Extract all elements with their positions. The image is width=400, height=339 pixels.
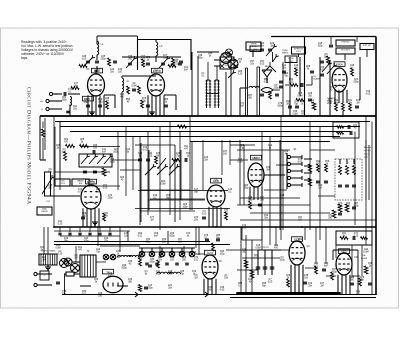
aerial terminal CH <box>46 99 49 102</box>
capacitor C8 <box>132 88 136 90</box>
capacitor C16 <box>260 93 264 95</box>
box below magic eye <box>333 122 359 138</box>
svg-text:0.25: 0.25 <box>84 101 89 103</box>
wire: bottom mid verticals <box>240 227 242 293</box>
svg-text:250p: 250p <box>273 87 279 89</box>
switch lever S1a <box>157 167 159 169</box>
switch bank frame <box>286 153 288 189</box>
wire: bottom frame inner <box>230 297 376 299</box>
svg-text:0.01: 0.01 <box>62 151 67 153</box>
svg-text:V10: V10 <box>354 257 359 259</box>
svg-text:100p: 100p <box>219 253 225 255</box>
dial lamp row <box>139 251 145 257</box>
svg-text:0.25: 0.25 <box>148 155 153 157</box>
capacitor C19 <box>282 70 286 72</box>
variable capacitor C10 (arrow) <box>128 62 132 64</box>
coupling loop symbol <box>261 88 273 93</box>
tube V1 RF amplifier <box>88 74 105 96</box>
capacitor C23 below V4 <box>81 216 85 218</box>
svg-text:DIAL: DIAL <box>253 48 259 51</box>
padder caps cluster left of V5 <box>138 158 142 160</box>
inner box around V10 stage <box>333 249 358 251</box>
svg-text:8uF: 8uF <box>154 235 159 237</box>
coil L4 detector <box>249 86 259 88</box>
wire: boxes to frame <box>252 50 254 57</box>
tuning drive extra X marks <box>226 49 233 56</box>
svg-text:500p: 500p <box>169 235 175 237</box>
input coil L2 <box>70 97 72 106</box>
svg-text:EXT SP: EXT SP <box>363 45 371 47</box>
tone network dashed box <box>335 159 362 200</box>
IFT1 coupling bars <box>207 93 219 95</box>
resistor R10 left of V2 <box>138 86 141 94</box>
svg-text:ECH35: ECH35 <box>153 70 161 73</box>
svg-text:0.01: 0.01 <box>138 235 143 237</box>
svg-text:0.5M: 0.5M <box>255 247 260 249</box>
earth terminal E <box>46 107 49 110</box>
speaker label box 1 <box>246 42 261 50</box>
wire: IF feed vertical <box>197 56 199 116</box>
wire: mains leads <box>37 273 52 275</box>
secondary box below bus <box>167 231 169 245</box>
wire: V9 pins <box>290 265 292 293</box>
label box 3b <box>336 48 355 54</box>
wire: far right drop <box>371 245 373 295</box>
svg-text:AZ31: AZ31 <box>341 250 347 253</box>
capacitor C14 below V2 <box>146 104 150 106</box>
resistor R24 bottom left <box>139 258 142 266</box>
wire: verticals bottom <box>75 246 77 262</box>
tone network internals <box>339 166 342 175</box>
svg-text:500p: 500p <box>121 267 127 269</box>
resistor R28 right of V9 <box>315 266 318 274</box>
resistor grid right of switch <box>317 164 320 172</box>
svg-text:1M: 1M <box>105 100 108 102</box>
capacitor C15 below V2 <box>164 104 168 106</box>
svg-text:taps.: taps. <box>21 56 28 60</box>
resistor R36 bottom left area <box>138 285 141 292</box>
wire: mid tile verticals <box>140 143 142 222</box>
ground below V2 <box>151 110 153 112</box>
svg-text:0.5M: 0.5M <box>363 251 368 253</box>
mains terminal 1 <box>34 272 37 275</box>
wire: V1 anode up <box>95 70 97 74</box>
svg-text:0.5M: 0.5M <box>131 85 136 87</box>
resistor R22 below V5 <box>225 212 228 220</box>
svg-text:0.05: 0.05 <box>268 281 273 283</box>
svg-text:MERS: MERS <box>282 53 289 55</box>
tuning capacitor bowtie 2 <box>228 59 238 69</box>
wire: aerial coil bottom <box>96 55 98 60</box>
resistor R29 <box>331 272 334 280</box>
wire: V1 pins to bus <box>87 95 89 116</box>
wire: V4 pins <box>82 208 84 227</box>
feedback box internals <box>340 237 348 240</box>
wire: switch to transformer <box>72 261 80 263</box>
svg-text:8uF: 8uF <box>102 151 107 153</box>
resistor R35 right of V10 <box>364 266 368 274</box>
svg-text:1M: 1M <box>320 285 323 287</box>
IF transformer IFT1 coil windings <box>206 80 208 108</box>
svg-text:1M: 1M <box>194 277 197 279</box>
ground below V1 <box>91 110 93 112</box>
svg-text:0.5M: 0.5M <box>292 113 297 115</box>
svg-text:C31-33: C31-33 <box>262 247 270 249</box>
wire: osc coil leads <box>155 40 157 43</box>
wire: V6 pins <box>249 187 251 200</box>
switch contacts in box <box>81 157 87 164</box>
wire: gang to tube V4 <box>51 195 80 197</box>
filter choke L7 <box>157 272 171 274</box>
capacitor C28 <box>148 264 152 266</box>
svg-text:SOCKET: SOCKET <box>341 49 351 51</box>
headphone jack Y symbol <box>264 66 276 72</box>
resistor R39 switch grid <box>308 164 311 172</box>
svg-text:100p: 100p <box>333 102 339 104</box>
grid stopper parts near 300,100 <box>296 99 304 102</box>
smoothing choke L5 <box>118 255 131 257</box>
trimmer cluster C1/C2 <box>86 60 90 62</box>
tube V6 detector/AVC <box>248 163 264 187</box>
wire: left-mid links <box>54 127 56 180</box>
svg-text:500p: 500p <box>331 271 337 273</box>
wire: PU box leads <box>214 59 220 61</box>
IFT1 arrow adjuster <box>228 73 233 78</box>
label box: ant coil <box>72 179 89 186</box>
capacitor C29 above V8 <box>205 238 209 240</box>
input filter C4 <box>63 92 65 96</box>
svg-text:1M: 1M <box>270 45 273 47</box>
trimmer C12 with arrow <box>161 62 165 64</box>
wire: V3 pins down <box>334 90 336 103</box>
svg-text:0.05: 0.05 <box>138 257 143 259</box>
svg-text:0.25: 0.25 <box>238 73 243 75</box>
diode marks on bottom line <box>135 292 138 297</box>
svg-text:EF39: EF39 <box>213 180 219 183</box>
switch arrows cluster <box>145 167 153 175</box>
svg-text:DIAL: DIAL <box>42 207 48 210</box>
junction dots on buses <box>96 115 98 117</box>
wire: switch drop to bottom line <box>64 274 66 295</box>
resistor R27 below V9 <box>287 279 290 287</box>
resistor R30 below V10 <box>359 278 362 286</box>
wire: gang to detector area <box>272 52 274 62</box>
fuse F1 <box>66 272 74 276</box>
resistor R25 <box>157 260 160 268</box>
wire: V2 pins down <box>147 95 149 116</box>
resistor R13 below V3 <box>342 103 345 111</box>
wire: V10 pins <box>337 275 339 295</box>
svg-text:~: ~ <box>44 274 46 278</box>
tuning capacitor bowtie 1 <box>221 53 232 64</box>
wire: HT bus (thick horizontal) <box>40 115 376 117</box>
resistor R23 below V6 <box>249 201 252 209</box>
wire: extra interconnects row B <box>122 75 156 77</box>
capacitor C9 top <box>179 60 183 62</box>
wire: dial lamp bus <box>139 247 195 249</box>
svg-text:CH: CH <box>40 101 44 103</box>
svg-text:COIL: COIL <box>60 183 66 185</box>
svg-text:COIL: COIL <box>296 51 302 53</box>
svg-text:250p: 250p <box>243 187 249 189</box>
wire: twin verticals pair B <box>256 67 258 116</box>
mains transformer T2 <box>80 255 96 277</box>
ground below output transformer <box>47 265 49 267</box>
svg-text:100p: 100p <box>317 45 323 47</box>
svg-text:250p: 250p <box>100 58 106 60</box>
wire: bottom region mesh <box>96 261 106 263</box>
svg-text:500p: 500p <box>197 57 203 59</box>
svg-text:250p: 250p <box>353 81 359 83</box>
svg-text:500p: 500p <box>109 161 115 163</box>
wire: AVC line 2 <box>60 126 360 128</box>
resistor R12 below V3 <box>335 103 338 111</box>
svg-text:100p: 100p <box>83 240 89 242</box>
svg-text:0.25: 0.25 <box>156 273 161 275</box>
svg-text:ECH35: ECH35 <box>87 181 95 184</box>
wire: extra vertical 283 <box>282 62 284 116</box>
caps bottom clamp region <box>288 105 292 107</box>
wire: mid tile horizontals <box>135 144 175 146</box>
capacitor C34 below V9 <box>303 281 307 283</box>
resistor R1 top-left <box>108 58 111 66</box>
tube type label boxes <box>92 68 103 73</box>
wire: left border drop to mains <box>39 116 41 160</box>
resistor R6 top <box>172 58 175 66</box>
oscillator shield box <box>138 40 192 71</box>
wire: long vertical risers middle <box>53 116 55 227</box>
bandswitch box <box>79 154 112 167</box>
wire: right section verticals <box>289 57 291 116</box>
svg-text:0.01: 0.01 <box>174 63 179 65</box>
svg-text:F.B.: F.B. <box>362 255 366 257</box>
resistor R31 mid clamp <box>290 84 298 87</box>
capacitor C35 <box>322 268 326 270</box>
label box 4 <box>360 44 374 50</box>
wire: IF right verticals <box>225 72 227 116</box>
capacitor C26 below V6 <box>258 203 262 205</box>
wire: distribution line 4 <box>100 136 340 138</box>
svg-text:1M: 1M <box>42 259 45 261</box>
wire: V8 pins <box>203 279 205 295</box>
box below magic eye internals <box>337 126 344 129</box>
wire: heater bus 3 <box>54 244 230 246</box>
svg-text:0.05: 0.05 <box>103 187 108 189</box>
resistor R40 switch grid <box>308 178 311 186</box>
svg-text:0.5M: 0.5M <box>55 247 60 249</box>
capacitor C21 row d <box>92 150 94 154</box>
wire: V6 to switch bank <box>264 174 285 176</box>
padder capacitor C11 <box>146 62 150 64</box>
speaker label box 2 <box>292 47 306 54</box>
capacitor C17 <box>275 93 279 95</box>
switch bank bars <box>304 158 312 160</box>
wire: right border of schematic <box>375 37 377 296</box>
svg-text:EM34: EM34 <box>336 63 343 66</box>
wire: section divider vertical <box>304 37 306 117</box>
svg-text:0.5M: 0.5M <box>160 183 165 185</box>
resistor R32 right-mid <box>332 210 336 218</box>
capacitor C13 <box>178 62 182 64</box>
svg-text:100p: 100p <box>247 199 253 201</box>
svg-text:0.01: 0.01 <box>314 265 319 267</box>
wire: heater bus <box>54 226 376 228</box>
dial label box (dark) <box>250 46 261 52</box>
tube V9 AF amp <box>289 241 305 265</box>
capacitor C42 right of V10 <box>368 282 372 284</box>
wire: V5 pins <box>208 207 210 227</box>
grid coil T1 between V1 V2 <box>122 78 124 92</box>
caps under dial lamps <box>145 262 149 264</box>
resistor R34 bottom mid <box>250 270 254 278</box>
wire: lamp row link <box>139 251 196 253</box>
capacitor C43 bottom left area <box>144 286 148 288</box>
svg-text:0.25: 0.25 <box>289 81 294 83</box>
svg-text:EM34: EM34 <box>327 103 333 105</box>
wave-change switch bank <box>287 155 290 158</box>
capacitor stack right <box>279 80 283 82</box>
wire: dashed box feeds <box>365 140 367 200</box>
capacitor C20 <box>320 73 324 75</box>
capacitor C30 above V8 <box>216 238 220 240</box>
capacitor C3 <box>113 60 117 62</box>
resistor R4 below V1 <box>106 101 109 109</box>
tube V10 rectifier right <box>336 253 352 275</box>
wire: verticals below IF strip <box>202 140 204 190</box>
pilot lamp LP2 <box>110 254 116 260</box>
svg-text:100p: 100p <box>61 99 67 101</box>
resistor R7 top <box>142 59 145 67</box>
svg-text:0.02: 0.02 <box>254 257 259 259</box>
rectifier tube V7 (horizontal) <box>103 276 123 292</box>
mains terminal 2 <box>34 283 37 286</box>
label box: osc coil <box>55 179 70 186</box>
resistor R19 <box>64 152 67 161</box>
wire: left column drop <box>42 122 44 129</box>
tube V4 oscillator <box>81 185 101 209</box>
wire: AVC line 1 <box>55 121 370 123</box>
svg-text:0.02: 0.02 <box>242 227 247 229</box>
svg-text:100p: 100p <box>279 259 285 261</box>
resistor R9 below V2 <box>141 100 144 108</box>
svg-text:0.01: 0.01 <box>264 81 269 83</box>
svg-text:0.5M: 0.5M <box>297 95 302 97</box>
ground below V4 <box>94 220 96 222</box>
wire: twin verticals pair A <box>245 68 247 116</box>
svg-text:0.02: 0.02 <box>320 69 325 71</box>
resistor R17 row d <box>66 144 75 147</box>
switch arrows near clamp <box>322 64 329 72</box>
svg-text:CLAMP: CLAMP <box>313 78 321 81</box>
wire: right-mid mesh <box>239 140 241 205</box>
wire: IFT1 top leads <box>207 62 209 80</box>
capacitor C24 <box>184 158 186 162</box>
label box dial drive left <box>37 207 52 215</box>
svg-text:0.25: 0.25 <box>58 223 63 225</box>
svg-text:500p: 500p <box>277 105 283 107</box>
resistor R8 in box <box>168 65 176 68</box>
svg-text:0.02: 0.02 <box>194 259 199 261</box>
svg-text:0.05: 0.05 <box>82 58 87 60</box>
caps under bandswitch box <box>83 170 87 172</box>
svg-text:0.05: 0.05 <box>366 93 371 95</box>
svg-text:0.02: 0.02 <box>143 149 148 151</box>
svg-text:EF39: EF39 <box>94 70 100 73</box>
svg-text:8uF: 8uF <box>184 69 189 71</box>
wire: top interconnect <box>122 56 181 58</box>
capacitor C25 below V5 <box>202 216 206 218</box>
filter choke L8 <box>170 272 181 274</box>
mains plug box <box>40 271 49 280</box>
svg-text:100p: 100p <box>182 206 188 208</box>
output transformer hatched box <box>39 254 57 265</box>
wire: detector connections <box>240 87 248 89</box>
wire: left edge vertical <box>44 118 46 150</box>
svg-text:250p: 250p <box>145 241 151 243</box>
detector diode cluster <box>262 70 272 77</box>
wire: aerial coil top to box <box>96 36 98 44</box>
tube V5 IF amp 2 <box>207 185 225 207</box>
svg-text:250p: 250p <box>149 261 155 263</box>
capacitor C7 below V1 <box>98 104 102 106</box>
pilot lamp LP1 <box>103 254 109 260</box>
resistor R37 on AVC line <box>178 125 187 128</box>
wire: top frame right section <box>271 36 376 38</box>
svg-text:SPCH: SPCH <box>288 58 294 60</box>
svg-text:0.05: 0.05 <box>260 63 265 65</box>
capacitor C41 right-mid <box>338 212 342 214</box>
svg-text:0.25: 0.25 <box>354 235 359 237</box>
tube V8 output <box>202 255 218 279</box>
wire: input joins grid <box>68 93 80 95</box>
wire: down to tube V1 area <box>96 66 98 72</box>
smoothing choke L6 <box>129 255 139 257</box>
resistor R11 <box>269 91 272 99</box>
wire: mid-region mesh <box>140 189 190 191</box>
resistor cluster below dashed box <box>338 204 342 212</box>
wire: extra horizontal row C segments <box>190 141 330 143</box>
resistor R5 <box>127 86 130 94</box>
svg-text:0.05: 0.05 <box>298 161 303 163</box>
wire: terminals to input filter <box>53 93 62 95</box>
resistor R16 <box>351 68 354 76</box>
svg-text:DRIVE: DRIVE <box>41 211 48 213</box>
svg-text:500p: 500p <box>113 151 119 153</box>
svg-text:0.02: 0.02 <box>202 213 207 215</box>
resistor R26 above V8 <box>212 243 215 251</box>
capacitor C5 input <box>66 110 70 112</box>
svg-text:0.01: 0.01 <box>82 293 87 295</box>
svg-text:BAND: BAND <box>77 179 83 182</box>
svg-text:EBC33: EBC33 <box>252 157 260 160</box>
wire: V7 leads <box>80 285 91 287</box>
capacitor C40 clamp <box>310 70 314 72</box>
svg-text:or Vols: or Vols <box>364 149 372 152</box>
wire: V3 cathode to bus <box>342 111 344 116</box>
svg-text:EL33: EL33 <box>207 252 213 255</box>
wire: bottom-left links <box>54 230 130 232</box>
svg-text:1M: 1M <box>356 102 359 104</box>
svg-text:0.01: 0.01 <box>78 191 83 193</box>
svg-text:8uF: 8uF <box>108 275 113 277</box>
wire: bottom mid horizontals <box>237 249 290 251</box>
wire: cap bank to bus <box>258 249 272 251</box>
resistor R18 row d <box>80 144 89 147</box>
resistor R2 input <box>71 87 79 90</box>
label box 3a <box>336 40 355 46</box>
svg-text:EF39: EF39 <box>294 238 300 241</box>
tuning gang capacitor left <box>45 172 51 196</box>
